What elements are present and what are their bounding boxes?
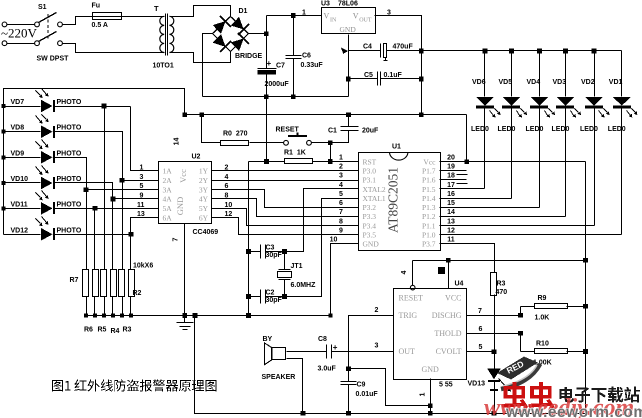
svg-text:XTAL1: XTAL1	[363, 194, 386, 203]
wire VD7 cathode to U2 1A and R5 tap	[54, 104, 159, 171]
pin 7 GND label U2	[173, 237, 180, 241]
svg-text:470: 470	[496, 289, 508, 296]
LED VD5 LED0	[498, 51, 528, 199]
caption 图1 红外线防盗报警器原理图	[52, 379, 217, 391]
svg-text:R2: R2	[133, 290, 142, 297]
svg-text:V: V	[324, 12, 330, 21]
pin 1 label U3	[302, 10, 306, 17]
capacitor C3 30pF	[246, 245, 287, 260]
LED VD3 LED0	[552, 51, 582, 217]
svg-text:C9: C9	[357, 382, 366, 389]
svg-text:5: 5	[479, 344, 483, 351]
svg-text:VD13: VD13	[468, 381, 486, 388]
svg-text:DISCHG: DISCHG	[432, 311, 462, 320]
switch S1 SW DPST	[35, 4, 70, 63]
svg-text:13: 13	[447, 218, 455, 225]
wire U4 GND pin 1	[420, 379, 433, 414]
wire pin20 Vcc drop to 555 rail	[585, 162, 587, 414]
wire U4 RESET pin 4	[401, 261, 415, 290]
wire VD6 to U1 port	[440, 188, 485, 190]
photodiode VD10 PHOTO	[4, 166, 82, 190]
svg-text:12: 12	[447, 228, 455, 235]
svg-text:P1.3: P1.3	[422, 203, 436, 212]
svg-text:17: 17	[447, 182, 455, 189]
resistor R9 1.0K	[521, 295, 588, 322]
svg-text:U1: U1	[392, 144, 401, 151]
wire VD8 cathode to U2 2A	[54, 132, 159, 270]
wire VD10 cathode to U2 4A	[54, 183, 159, 270]
svg-text:LED0: LED0	[580, 126, 598, 133]
wire bridge negative output to ground rail	[203, 34, 213, 97]
svg-text:P3.2: P3.2	[363, 203, 377, 212]
wire switch bottom pole to transformer primary	[63, 44, 165, 53]
svg-text:GND: GND	[175, 197, 185, 215]
svg-text:78L06: 78L06	[338, 1, 358, 8]
svg-text:VD7: VD7	[11, 99, 25, 106]
svg-text:RESET: RESET	[399, 293, 424, 302]
svg-text:16: 16	[447, 191, 455, 198]
svg-text:P1.0: P1.0	[422, 231, 436, 240]
photodiode VD8 PHOTO	[4, 115, 82, 139]
LED VD2 LED0	[580, 51, 610, 226]
svg-text:3: 3	[375, 343, 379, 350]
wire U2 GND pin 7 to ground rail	[184, 224, 186, 316]
wire RESET button to RST node	[312, 141, 333, 162]
svg-text:4: 4	[225, 174, 229, 181]
svg-text:P3.0: P3.0	[363, 167, 377, 176]
svg-text:P1.1: P1.1	[422, 221, 436, 230]
LED VD4 LED0	[526, 51, 556, 208]
wire VD11 cathode to U2 5A	[54, 206, 159, 269]
svg-text:R10: R10	[536, 341, 549, 348]
pin 14 Vcc label U2	[174, 138, 181, 146]
photodiode VD7 PHOTO	[4, 89, 82, 113]
svg-text:R3: R3	[123, 327, 132, 334]
svg-text:U3: U3	[321, 1, 330, 8]
svg-text:7: 7	[339, 209, 343, 216]
svg-text:LED0: LED0	[526, 126, 544, 133]
svg-text:CVOLT: CVOLT	[436, 347, 462, 356]
svg-text:Vcc: Vcc	[178, 169, 188, 183]
wire U2 2Y to U1 pin 3	[212, 180, 359, 182]
wire U3 output pin 3	[375, 16, 424, 115]
photodiode VD11 PHOTO	[4, 191, 82, 215]
svg-text:VD8: VD8	[11, 125, 25, 132]
wire VD9 cathode to U2 3A	[54, 158, 159, 270]
svg-text:LED0: LED0	[471, 126, 489, 133]
bottom ground rail	[195, 316, 586, 416]
svg-text:19: 19	[447, 164, 455, 171]
svg-text:CC4069: CC4069	[193, 229, 219, 236]
svg-text:VD5: VD5	[499, 79, 513, 86]
svg-text:TRIG: TRIG	[399, 311, 418, 320]
wire VD5 to U1 port	[440, 198, 512, 200]
transformer T 10TO1	[153, 4, 174, 70]
wire DC+ rail to regulator	[267, 13, 322, 18]
svg-text:5 55: 5 55	[439, 382, 453, 389]
svg-text:4: 4	[339, 182, 343, 189]
svg-text:20: 20	[447, 154, 455, 161]
svg-text:P3.4: P3.4	[363, 221, 377, 230]
svg-text:U4: U4	[455, 281, 464, 288]
svg-text:4A: 4A	[163, 195, 173, 204]
svg-text:0.01uF: 0.01uF	[356, 391, 379, 398]
svg-text:0.33uF: 0.33uF	[301, 62, 324, 69]
wire U2 1Y to U1 pin 2	[212, 170, 359, 172]
svg-text:THOLD: THOLD	[434, 329, 461, 338]
svg-text:C5: C5	[364, 72, 373, 79]
wire U4 THOLD pin 6	[467, 326, 523, 336]
svg-text:3.0uF: 3.0uF	[318, 366, 337, 373]
svg-text:3Y: 3Y	[199, 185, 209, 194]
svg-text:R7: R7	[70, 277, 79, 284]
svg-text:P1.4: P1.4	[422, 194, 436, 203]
svg-text:P3.1: P3.1	[363, 176, 377, 185]
photodiode VD12 PHOTO	[4, 217, 82, 241]
resistor R0 270	[202, 115, 284, 146]
wire U4 CVOLT pin 5	[467, 344, 497, 354]
svg-text:P3.3: P3.3	[363, 212, 377, 221]
wire U3 GND pin down	[346, 35, 351, 97]
svg-text:470uF: 470uF	[393, 44, 414, 51]
svg-text:SPEAKER: SPEAKER	[262, 374, 296, 381]
svg-text:V: V	[353, 12, 359, 21]
pushbutton RESET	[276, 127, 312, 146]
svg-text:VD3: VD3	[553, 79, 567, 86]
capacitor C7 2000uF	[258, 59, 290, 88]
svg-text:GND: GND	[340, 25, 357, 34]
ground rail top section	[203, 95, 349, 100]
svg-text:1: 1	[140, 165, 144, 172]
svg-text:1: 1	[302, 10, 306, 17]
svg-text:VD10: VD10	[11, 176, 29, 183]
svg-text:C3: C3	[266, 245, 275, 252]
svg-text:P1.6: P1.6	[422, 176, 436, 185]
svg-text:U2: U2	[192, 154, 201, 161]
LED VD1 LED0	[608, 51, 638, 235]
capacitor C1 20uF	[328, 115, 379, 143]
svg-text:RESET: RESET	[276, 127, 300, 134]
svg-text:30pF: 30pF	[266, 252, 283, 259]
resistor R1 1K	[249, 150, 333, 164]
MCU U1 AT89C2051	[359, 144, 441, 251]
wire fuse to transformer primary	[122, 16, 165, 18]
pin 3 label U3	[387, 10, 391, 17]
svg-text:5A: 5A	[163, 204, 173, 213]
svg-text:C7: C7	[276, 63, 285, 70]
svg-text:+: +	[267, 59, 272, 68]
watermark red characters 虫虫	[502, 382, 555, 409]
speaker BY SPEAKER	[262, 336, 327, 414]
LED VD6 LED0	[471, 51, 501, 189]
svg-text:10kX6: 10kX6	[133, 263, 153, 270]
wire U4 TRIG pin 2	[349, 307, 394, 369]
svg-text:PHOTO: PHOTO	[57, 99, 82, 106]
svg-text:2000uF: 2000uF	[265, 81, 290, 88]
svg-text:VD11: VD11	[11, 201, 28, 208]
svg-text:VD1: VD1	[609, 79, 623, 86]
wire U4 VCC pin	[439, 261, 449, 289]
pin labels U2 left	[137, 165, 145, 219]
svg-text:LED0: LED0	[608, 126, 626, 133]
watermark text 电子下载站	[559, 387, 639, 403]
svg-text:0.1uF: 0.1uF	[384, 72, 403, 79]
svg-text:4Y: 4Y	[199, 195, 209, 204]
svg-text:+: +	[333, 343, 338, 352]
wire transformer secondary top to bridge	[170, 6, 231, 17]
crystal JT1 6.0MHZ	[278, 252, 317, 297]
svg-text:VD2: VD2	[581, 79, 595, 86]
svg-text:4: 4	[401, 270, 408, 274]
svg-text:RST: RST	[363, 157, 377, 166]
svg-text:LED0: LED0	[498, 126, 516, 133]
watermark dark banner RED	[497, 357, 540, 390]
wire U2 6Y to U1 pin 9	[212, 218, 359, 235]
svg-text:20uF: 20uF	[362, 128, 379, 135]
wire VD3 to U1 port	[440, 216, 566, 218]
wire U4 DISCHG pin 7	[467, 308, 523, 318]
svg-text:2Y: 2Y	[199, 176, 209, 185]
svg-text:3A: 3A	[163, 185, 173, 194]
svg-text:11: 11	[137, 202, 145, 209]
wire R1 ground column	[246, 162, 251, 318]
svg-text:30pF: 30pF	[266, 297, 283, 304]
svg-text:1: 1	[420, 392, 427, 396]
ground symbol	[177, 316, 194, 330]
svg-text:3: 3	[140, 174, 144, 181]
svg-text:PHOTO: PHOTO	[57, 125, 82, 132]
svg-text:PHOTO: PHOTO	[57, 201, 82, 208]
svg-text:P1.5: P1.5	[422, 185, 436, 194]
svg-text:13: 13	[137, 211, 145, 218]
svg-text:LED0: LED0	[552, 126, 570, 133]
svg-text:7: 7	[478, 308, 482, 315]
svg-text:VD4: VD4	[527, 79, 541, 86]
svg-text:PHOTO: PHOTO	[57, 150, 82, 157]
junction arrow at U3 GND	[341, 47, 348, 54]
svg-text:IN: IN	[330, 18, 337, 24]
svg-text:C2: C2	[266, 290, 275, 297]
inverter U2 CC4069	[159, 154, 219, 237]
svg-text:5: 5	[339, 191, 343, 198]
svg-text:R6: R6	[84, 327, 93, 334]
wire ground column from top rail	[266, 97, 268, 162]
svg-text:2A: 2A	[163, 176, 173, 185]
svg-text:6: 6	[479, 326, 483, 333]
svg-text:P1.2: P1.2	[422, 212, 436, 221]
wire AC bottom terminal to switch	[7, 43, 35, 45]
wire U2 4Y to U1 pin 7	[212, 199, 359, 217]
svg-text:C6: C6	[302, 53, 311, 60]
svg-text:9: 9	[140, 193, 144, 200]
svg-text:8: 8	[339, 218, 343, 225]
svg-text:1.0K: 1.0K	[535, 315, 550, 322]
svg-text:SW DPST: SW DPST	[37, 56, 70, 63]
svg-text:VD6: VD6	[472, 79, 486, 86]
pin number labels U1 right	[447, 154, 455, 243]
svg-text:Vcc: Vcc	[423, 157, 436, 166]
svg-text:AT89C2051: AT89C2051	[386, 167, 401, 233]
wire U1 pin 20 Vcc	[440, 159, 586, 164]
svg-text:R4: R4	[111, 328, 120, 335]
svg-text:GND: GND	[422, 365, 440, 374]
capacitor C2 30pF	[246, 290, 287, 305]
wire crystal top to XTAL2	[285, 189, 359, 252]
svg-text:2: 2	[339, 164, 343, 171]
capacitor C8 3.0uF	[318, 336, 338, 373]
wire VD7 resistor column	[104, 107, 106, 270]
pin labels U2 right	[225, 165, 233, 219]
svg-text:5: 5	[140, 183, 144, 190]
svg-text:14: 14	[174, 138, 181, 146]
svg-text:6Y: 6Y	[199, 213, 209, 222]
svg-text:BRIDGE: BRIDGE	[235, 53, 263, 60]
ground rail	[87, 313, 331, 318]
svg-text:OUT: OUT	[359, 18, 372, 24]
wire U2 3Y to U1 pin 6	[212, 190, 359, 208]
photodiode VD9 PHOTO	[4, 140, 82, 164]
svg-text:14: 14	[447, 209, 455, 216]
svg-text:6: 6	[339, 200, 343, 207]
svg-text:JT1: JT1	[291, 263, 303, 270]
node AC input terminals ~220V	[1, 22, 38, 46]
svg-text:VCC: VCC	[445, 293, 461, 302]
svg-text:1A: 1A	[163, 167, 173, 176]
svg-text:D1: D1	[239, 8, 248, 15]
svg-text:GND: GND	[363, 240, 380, 249]
svg-text:S1: S1	[38, 4, 47, 11]
wire AC top terminal to switch	[7, 24, 35, 26]
svg-text:VD12: VD12	[11, 227, 29, 234]
svg-text:www.eeworm.com: www.eeworm.com	[505, 404, 642, 418]
svg-text:~220V: ~220V	[1, 26, 38, 41]
pin number labels U1 left	[330, 154, 343, 243]
svg-text:3: 3	[339, 173, 343, 180]
svg-text:9: 9	[339, 228, 343, 235]
regulator U3 78L06	[321, 1, 376, 35]
wire photodiode anode supply rail	[2, 89, 185, 235]
svg-text:15: 15	[447, 200, 455, 207]
wire crystal bottom to XTAL1	[285, 199, 359, 297]
svg-text:OUT: OUT	[399, 347, 416, 356]
wire LED supply rail	[422, 49, 622, 54]
svg-text:R3: R3	[497, 281, 506, 288]
wire U1 pin 10 GND	[328, 244, 358, 318]
wire U4 OUT pin 3	[332, 343, 394, 352]
wire U1 pin 19 stub	[440, 171, 468, 175]
svg-text:6A: 6A	[163, 213, 173, 222]
watermark text www.eeworm.com	[505, 404, 642, 418]
svg-text:C1: C1	[328, 128, 337, 135]
svg-text:10TO1: 10TO1	[153, 63, 174, 70]
wire bridge positive output node	[249, 32, 269, 37]
svg-text:R5: R5	[98, 327, 107, 334]
svg-text:1: 1	[339, 154, 343, 161]
svg-text:7: 7	[173, 237, 180, 241]
svg-text:XTAL2: XTAL2	[363, 185, 386, 194]
svg-text:BY: BY	[263, 336, 273, 343]
svg-text:R1 1K: R1 1K	[284, 150, 306, 157]
fuse Fu 0.5A	[92, 3, 122, 30]
svg-text:R9: R9	[538, 295, 547, 302]
resistor network R7 R6 R5 R4 R3 R2 10kX6	[70, 263, 154, 336]
svg-text:10: 10	[330, 237, 338, 244]
svg-text:5Y: 5Y	[199, 204, 209, 213]
LED VD13 RED	[468, 368, 512, 413]
bridge rectifier D1 BRIDGE	[213, 8, 263, 60]
wire C7 to ground rail	[266, 74, 268, 97]
svg-text:PHOTO: PHOTO	[57, 227, 82, 234]
svg-text:1Y: 1Y	[199, 167, 209, 176]
wire 555 supply rail	[413, 258, 588, 263]
wire transformer secondary bottom to bridge	[170, 52, 231, 63]
watermark script www.eediy.com	[484, 395, 634, 418]
capacitor C5 0.1uF	[349, 72, 422, 86]
svg-text:C8: C8	[318, 336, 327, 343]
svg-text:P1.7: P1.7	[422, 167, 436, 176]
wire VD2 to U1 port	[440, 225, 595, 227]
wire U1 pin 18 stub	[440, 180, 468, 184]
wire TRIG node to U4 GND area	[349, 369, 431, 406]
resistor R3 470	[440, 244, 508, 369]
svg-text:2: 2	[375, 307, 379, 314]
svg-text:C4: C4	[363, 44, 372, 51]
svg-text:Fu: Fu	[92, 3, 101, 10]
wire U2 5Y to U1 pin 8	[212, 209, 359, 226]
svg-text:0.5 A: 0.5 A	[92, 22, 108, 29]
wire VD12 cathode to U2 6A	[54, 218, 159, 270]
svg-text:VD9: VD9	[11, 150, 25, 157]
svg-text:18: 18	[447, 173, 455, 180]
wire VD1 to U1 port	[440, 234, 622, 236]
svg-text:6.0MHZ: 6.0MHZ	[291, 282, 317, 289]
wire VD4 to U1 port	[440, 207, 540, 209]
svg-text:T: T	[154, 4, 159, 13]
svg-text:P3.7: P3.7	[422, 240, 436, 249]
wire switch top pole to fuse	[63, 17, 93, 25]
resistor R10 1.00K	[521, 334, 588, 367]
wire Vcc +6V rail	[183, 113, 467, 162]
svg-text:P3.5: P3.5	[363, 231, 377, 240]
capacitor C9 0.01uF	[341, 367, 379, 414]
svg-text:R0 270: R0 270	[223, 131, 248, 138]
capacitor C6 0.33uF	[286, 16, 324, 97]
wire RST to U1 pin 1	[331, 161, 359, 163]
capacitor C4 470uF	[349, 44, 422, 61]
timer U4 555	[394, 281, 467, 389]
svg-text:11: 11	[447, 237, 455, 244]
wire DC+ vertical to regulator input	[266, 16, 268, 69]
